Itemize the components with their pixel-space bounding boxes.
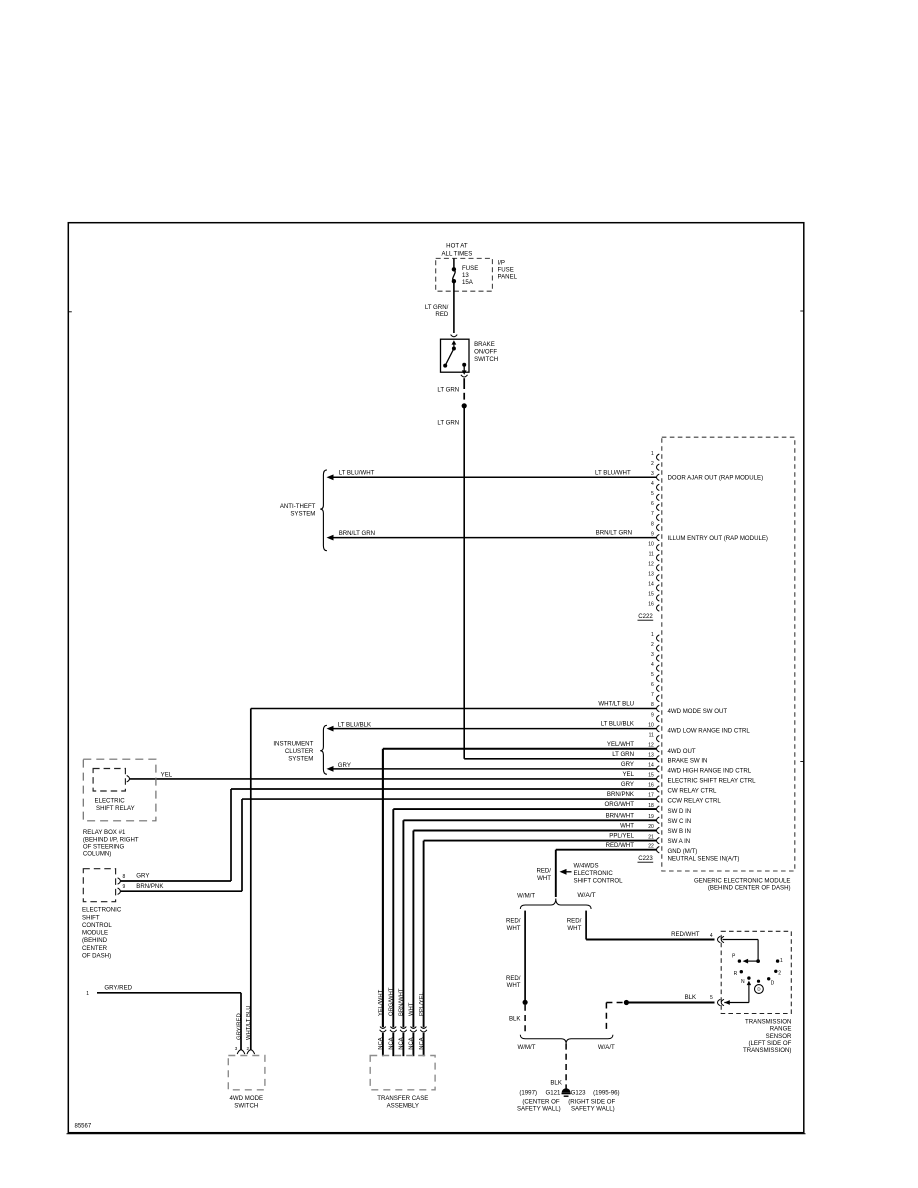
svg-text:CLUSTER: CLUSTER [285, 748, 314, 755]
svg-text:TRANSMISSION: TRANSMISSION [745, 1018, 791, 1025]
svg-text:4: 4 [651, 481, 654, 487]
svg-text:PPL/YEL: PPL/YEL [419, 991, 425, 1016]
brake on/off switch SW box [441, 339, 470, 372]
brake switch input connector cup [451, 335, 458, 337]
svg-text:SHIFT: SHIFT [82, 914, 100, 921]
svg-text:GRY: GRY [338, 762, 351, 769]
svg-text:3: 3 [235, 1046, 238, 1051]
range sensor internal wire from pin 4 [723, 939, 759, 941]
svg-text:D: D [771, 981, 775, 987]
svg-text:MODULE: MODULE [82, 930, 108, 937]
svg-text:1: 1 [780, 958, 783, 964]
svg-text:BRN/WHT: BRN/WHT [606, 812, 635, 819]
svg-text:RED/: RED/ [506, 918, 521, 925]
svg-text:WHT: WHT [620, 823, 634, 830]
svg-text:2: 2 [651, 642, 654, 648]
wire BRN/PNK pin 17 row [242, 798, 656, 800]
svg-text:(CENTER OF: (CENTER OF [522, 1098, 560, 1105]
svg-text:HOT AT: HOT AT [446, 243, 468, 250]
svg-text:BRN/LT GRN: BRN/LT GRN [339, 530, 375, 537]
transmission range sensor dashed box [721, 931, 791, 1013]
svg-text:11: 11 [649, 551, 654, 557]
svg-text:16: 16 [648, 783, 654, 789]
svg-text:13: 13 [462, 272, 469, 279]
wire WHT vertical to transfer case [412, 831, 414, 1028]
svg-text:16: 16 [648, 602, 654, 608]
svg-text:18: 18 [648, 803, 654, 809]
svg-text:PANEL: PANEL [498, 274, 518, 281]
svg-text:(BEHIND I/P, RIGHT: (BEHIND I/P, RIGHT [83, 836, 139, 843]
svg-text:9: 9 [651, 712, 654, 718]
svg-text:CENTER: CENTER [82, 945, 108, 952]
svg-text:W/M/T: W/M/T [517, 893, 535, 900]
svg-text:CONTROL: CONTROL [82, 922, 112, 929]
branch arrow W/4WDS ELECTRONIC SHIFT CONTROL [560, 869, 567, 875]
svg-text:D: D [757, 987, 760, 992]
svg-text:5: 5 [651, 672, 654, 678]
svg-text:3: 3 [651, 471, 654, 477]
I/P fuse panel dashed box [436, 258, 493, 291]
svg-text:C222: C222 [638, 613, 653, 620]
svg-text:YEL/WHT: YEL/WHT [607, 741, 634, 748]
svg-text:WHT/LT BLU: WHT/LT BLU [246, 1006, 252, 1040]
svg-text:SENSOR: SENSOR [766, 1033, 792, 1040]
svg-text:85567: 85567 [75, 1124, 92, 1130]
svg-text:9: 9 [651, 531, 654, 537]
svg-text:15A: 15A [462, 279, 474, 286]
wire YEL pin 15 row from electric shift relay [130, 778, 657, 780]
svg-text:8: 8 [651, 521, 654, 527]
svg-text:7: 7 [651, 692, 654, 698]
svg-text:10: 10 [648, 722, 654, 728]
svg-text:LT GRN: LT GRN [437, 420, 459, 427]
wire GRY pin 16 row [231, 788, 656, 790]
svg-text:5: 5 [651, 491, 654, 497]
svg-text:4WD MODE: 4WD MODE [230, 1095, 264, 1102]
svg-text:ORG/WHT: ORG/WHT [605, 801, 635, 808]
svg-text:RED/: RED/ [567, 918, 582, 925]
svg-text:YEL: YEL [161, 772, 173, 779]
svg-text:ANTI-THEFT: ANTI-THEFT [280, 503, 316, 510]
svg-text:1: 1 [86, 991, 89, 997]
svg-text:(BEHIND: (BEHIND [82, 937, 108, 944]
svg-text:BRN/WHT: BRN/WHT [399, 988, 405, 1016]
svg-text:ON/OFF: ON/OFF [474, 348, 497, 355]
wire ORG/WHT pin 18 row [393, 808, 656, 810]
svg-text:WHT: WHT [507, 982, 521, 989]
svg-text:P: P [732, 954, 736, 960]
svg-text:DOOR AJAR OUT (RAP MODULE): DOOR AJAR OUT (RAP MODULE) [668, 475, 764, 482]
svg-text:GRY: GRY [136, 873, 149, 880]
wire BRN/PNK from module pin 9 [121, 890, 242, 892]
transfer case inline connectors [380, 1027, 386, 1029]
svg-text:NEUTRAL SENSE IN(A/T): NEUTRAL SENSE IN(A/T) [668, 855, 740, 862]
svg-text:RED/: RED/ [506, 975, 521, 982]
svg-text:20: 20 [648, 824, 654, 830]
svg-text:LT GRN: LT GRN [612, 751, 634, 758]
svg-text:21: 21 [648, 834, 654, 840]
generic electronic module dashed box [662, 437, 795, 871]
svg-text:SHIFT RELAY: SHIFT RELAY [96, 805, 135, 812]
svg-text:RANGE: RANGE [770, 1026, 792, 1033]
wire RED/WHT to transmission range sensor pin 4 [586, 939, 714, 941]
svg-text:LT BLU/BLK: LT BLU/BLK [338, 722, 371, 729]
wire RED/WHT A/T branch vertical [585, 911, 587, 940]
svg-text:6: 6 [651, 682, 654, 688]
svg-text:SW D IN: SW D IN [668, 808, 692, 815]
wire BRN/WHT pin 19 row [403, 819, 656, 821]
svg-text:WHT: WHT [567, 925, 581, 932]
svg-text:LT GRN: LT GRN [437, 387, 459, 394]
right border fold tick 2 [800, 761, 804, 763]
wire GRY/RED vertical to 4WD mode switch [240, 993, 242, 1050]
svg-text:4: 4 [651, 662, 654, 668]
brake switch output connector cup [461, 375, 468, 377]
svg-text:GRY/RED: GRY/RED [104, 985, 132, 992]
svg-text:ASSEMBLY: ASSEMBLY [387, 1103, 419, 1110]
svg-text:(1995-96): (1995-96) [593, 1090, 619, 1097]
svg-text:3: 3 [651, 652, 654, 658]
electric shift relay output pin [127, 776, 130, 782]
wire LT GRN/RED from fuse to brake switch [453, 281, 455, 333]
svg-text:WHT: WHT [507, 925, 521, 932]
svg-text:SWITCH: SWITCH [234, 1103, 258, 1110]
svg-text:BRN/LT GRN: BRN/LT GRN [596, 530, 632, 537]
wire RED/WHT pin 22 row [556, 849, 657, 851]
svg-text:4WD MODE SW OUT: 4WD MODE SW OUT [668, 708, 728, 715]
wire BRN/LT GRN illum entry row [327, 535, 334, 541]
svg-text:SW B IN: SW B IN [668, 828, 691, 835]
wire RED/WHT vertical from pin 22 [555, 850, 557, 897]
svg-text:12: 12 [648, 561, 654, 567]
svg-text:19: 19 [648, 814, 654, 820]
svg-text:G121: G121 [546, 1090, 562, 1097]
electric shift relay dashed box [93, 769, 125, 792]
svg-text:W/M/T: W/M/T [518, 1044, 536, 1051]
svg-text:2: 2 [651, 461, 654, 467]
wire WHT pin 20 row [413, 830, 656, 832]
4WD mode switch dashed box [228, 1056, 265, 1090]
svg-text:GRY: GRY [621, 761, 634, 768]
svg-text:WHT: WHT [537, 875, 551, 882]
page border frame [68, 223, 804, 1133]
svg-text:9: 9 [123, 884, 126, 890]
shift control module pin 8 [118, 878, 121, 884]
svg-text:4WD HIGH RANGE IND CTRL: 4WD HIGH RANGE IND CTRL [668, 767, 752, 774]
fuse F13 15A symbol [453, 258, 455, 268]
svg-text:TRANSMISSION): TRANSMISSION) [743, 1047, 791, 1054]
svg-text:8: 8 [651, 702, 654, 708]
brake switch blade contacts and arm [443, 364, 447, 368]
wire RED/WHT M/T branch vertical [524, 911, 526, 1002]
splice on BLK wire [624, 1000, 629, 1005]
svg-text:SYSTEM: SYSTEM [288, 755, 313, 762]
wire GRY from module pin 8 [121, 880, 231, 882]
svg-text:BLK: BLK [550, 1080, 562, 1087]
svg-text:SAFETY WALL): SAFETY WALL) [571, 1106, 615, 1113]
transfer case wire stubs into box [382, 1033, 384, 1056]
svg-text:BLK: BLK [509, 1015, 521, 1022]
instrument cluster system brace [320, 725, 327, 774]
svg-text:11: 11 [649, 732, 654, 738]
right border fold tick [800, 310, 804, 312]
wire LT GRN below brake switch with splice [463, 378, 465, 389]
svg-text:BRN/PNK: BRN/PNK [136, 883, 163, 890]
svg-text:W/4WDS: W/4WDS [574, 862, 599, 869]
transfer case assembly dashed box [370, 1056, 435, 1090]
svg-text:GRY: GRY [621, 781, 634, 788]
svg-text:TRANSFER CASE: TRANSFER CASE [377, 1095, 428, 1102]
svg-text:17: 17 [648, 793, 654, 799]
svg-text:CW RELAY CTRL: CW RELAY CTRL [668, 788, 717, 795]
svg-text:BLK: BLK [685, 994, 697, 1001]
svg-text:C223: C223 [638, 855, 653, 862]
merging brace to ground [520, 1035, 613, 1044]
svg-text:SW C IN: SW C IN [668, 818, 692, 825]
svg-text:LT BLU/WHT: LT BLU/WHT [339, 470, 375, 477]
svg-text:10: 10 [648, 541, 654, 547]
svg-text:13: 13 [648, 753, 654, 759]
svg-text:INSTRUMENT: INSTRUMENT [273, 741, 313, 748]
svg-text:ALL TIMES: ALL TIMES [441, 250, 472, 257]
svg-text:RED: RED [435, 311, 448, 318]
svg-text:COLUMN): COLUMN) [83, 851, 111, 858]
svg-text:SW A IN: SW A IN [668, 838, 691, 845]
svg-text:WHT: WHT [409, 1002, 415, 1016]
svg-text:R: R [734, 971, 738, 977]
svg-text:4: 4 [710, 933, 713, 939]
svg-text:BRAKE SW IN: BRAKE SW IN [668, 757, 708, 764]
wire YEL/WHT pin 12 row [383, 748, 656, 750]
wire BLK solid to transmission range sensor pin 5 [626, 1002, 714, 1004]
svg-text:22: 22 [648, 843, 654, 849]
svg-text:SHIFT CONTROL: SHIFT CONTROL [574, 878, 624, 885]
svg-text:LT GRN/: LT GRN/ [425, 304, 449, 311]
anti-theft system brace [320, 470, 327, 551]
svg-text:LT BLU/BLK: LT BLU/BLK [601, 721, 634, 728]
svg-text:1: 1 [651, 632, 654, 638]
svg-text:BRN/PNK: BRN/PNK [607, 791, 634, 798]
svg-text:(RIGHT SIDE OF: (RIGHT SIDE OF [568, 1098, 615, 1105]
wire GRY vertical to shift control module pin 8 [230, 789, 232, 881]
svg-text:ELECTRONIC: ELECTRONIC [82, 907, 122, 914]
svg-text:FUSE: FUSE [498, 267, 514, 274]
svg-text:G123: G123 [571, 1090, 587, 1097]
svg-text:GRY/RED: GRY/RED [236, 1013, 242, 1040]
svg-text:GND (M/T): GND (M/T) [668, 848, 698, 855]
svg-text:N: N [741, 979, 745, 985]
svg-text:15: 15 [648, 773, 654, 779]
svg-text:FUSE: FUSE [462, 265, 478, 272]
svg-text:13: 13 [648, 572, 654, 578]
svg-text:2: 2 [778, 971, 781, 977]
svg-text:PPL/YEL: PPL/YEL [609, 833, 634, 840]
wire BLK dashed A/T branch [605, 1003, 607, 1034]
svg-text:14: 14 [648, 763, 654, 769]
wire BRN/PNK vertical to shift control module pin 9 [241, 799, 243, 891]
svg-text:SAFETY WALL): SAFETY WALL) [517, 1106, 561, 1113]
wire PPL/YEL vertical to transfer case [423, 841, 425, 1028]
svg-text:7: 7 [651, 511, 654, 517]
splice on M/T branch [523, 1000, 528, 1005]
svg-text:ELECTRIC SHIFT RELAY CTRL: ELECTRIC SHIFT RELAY CTRL [668, 777, 757, 784]
svg-text:(1997): (1997) [519, 1090, 537, 1097]
svg-text:WHT/LT BLU: WHT/LT BLU [598, 701, 634, 708]
svg-text:RED/WHT: RED/WHT [671, 931, 700, 938]
svg-text:OF DASH): OF DASH) [82, 952, 111, 959]
svg-text:(BEHIND CENTER OF DASH): (BEHIND CENTER OF DASH) [708, 885, 791, 892]
svg-text:14: 14 [648, 582, 654, 588]
shift control module pin 9 [118, 888, 121, 894]
svg-text:ILLUM ENTRY OUT (RAP MODULE): ILLUM ENTRY OUT (RAP MODULE) [668, 535, 768, 542]
wire GRY/RED horizontal [97, 992, 241, 994]
4WD mode switch pin connectors [237, 1050, 245, 1054]
wire LT BLU/BLK pin 10 row [327, 726, 334, 732]
wire WHT/LT BLU vertical to 4WD mode switch [250, 709, 252, 1050]
svg-text:LT BLU/WHT: LT BLU/WHT [595, 469, 631, 476]
svg-text:6: 6 [651, 501, 654, 507]
wire ORG/WHT vertical to transfer case [392, 809, 394, 1027]
svg-text:YEL: YEL [622, 771, 634, 778]
svg-text:4WD LOW RANGE IND CTRL: 4WD LOW RANGE IND CTRL [668, 727, 751, 734]
svg-text:RELAY BOX #1: RELAY BOX #1 [83, 829, 126, 836]
svg-text:8: 8 [123, 874, 126, 880]
electronic shift control module dashed box [83, 869, 115, 902]
svg-text:SWITCH: SWITCH [474, 356, 498, 363]
svg-text:1: 1 [651, 451, 654, 457]
wire GRY pin 14 row instrument cluster [327, 766, 334, 772]
ground symbol G121/G123 [562, 1088, 571, 1092]
wire BLK dashed below splice [524, 1005, 526, 1033]
wire PPL/YEL pin 21 row [424, 840, 657, 842]
svg-text:W/A/T: W/A/T [577, 892, 595, 899]
range sensor internal wire from pin 5 to N [724, 1000, 730, 1005]
left border fold tick [68, 311, 72, 313]
wire BRN/WHT vertical to transfer case [402, 820, 404, 1027]
svg-text:YEL/WHT: YEL/WHT [378, 989, 384, 1016]
svg-text:ELECTRIC: ELECTRIC [95, 797, 126, 804]
svg-text:CCW RELAY CTRL: CCW RELAY CTRL [668, 798, 722, 805]
connector C223 pins 1-22 [657, 635, 660, 641]
wire LT BLU/WHT door ajar row [327, 474, 334, 480]
svg-text:I/P: I/P [498, 259, 505, 266]
svg-text:5: 5 [710, 995, 713, 1001]
svg-text:RED/: RED/ [536, 868, 551, 875]
splitting brace for M/T and A/T branches [520, 899, 591, 910]
wire YEL/WHT vertical to transfer case [382, 749, 384, 1027]
svg-text:ELECTRONIC: ELECTRONIC [574, 870, 614, 877]
svg-text:4WD OUT: 4WD OUT [668, 748, 696, 755]
overdrive circled D indicator [755, 985, 764, 994]
svg-text:ORG/WHT: ORG/WHT [389, 987, 395, 1016]
svg-text:12: 12 [648, 742, 654, 748]
range sensor selector contacts P R N D 2 1 [738, 959, 741, 962]
svg-text:(LEFT SIDE OF: (LEFT SIDE OF [749, 1040, 792, 1047]
svg-text:15: 15 [648, 592, 654, 598]
svg-text:SYSTEM: SYSTEM [290, 510, 315, 517]
svg-text:W/A/T: W/A/T [598, 1044, 615, 1051]
connector C222 pins 1-16 [657, 454, 660, 460]
wire BLK dashed to ground [565, 1044, 567, 1091]
svg-text:BRAKE: BRAKE [474, 341, 495, 348]
wire WHT/LT BLU pin 8 row [251, 708, 657, 710]
svg-text:GENERIC ELECTRONIC MODULE: GENERIC ELECTRONIC MODULE [694, 877, 791, 884]
wire LT GRN horizontal to GEM pin 13 [464, 758, 656, 760]
svg-text:RED/WHT: RED/WHT [606, 842, 635, 849]
relay box #1 dashed enclosure [83, 759, 156, 821]
svg-text:OF STEERING: OF STEERING [83, 844, 125, 851]
